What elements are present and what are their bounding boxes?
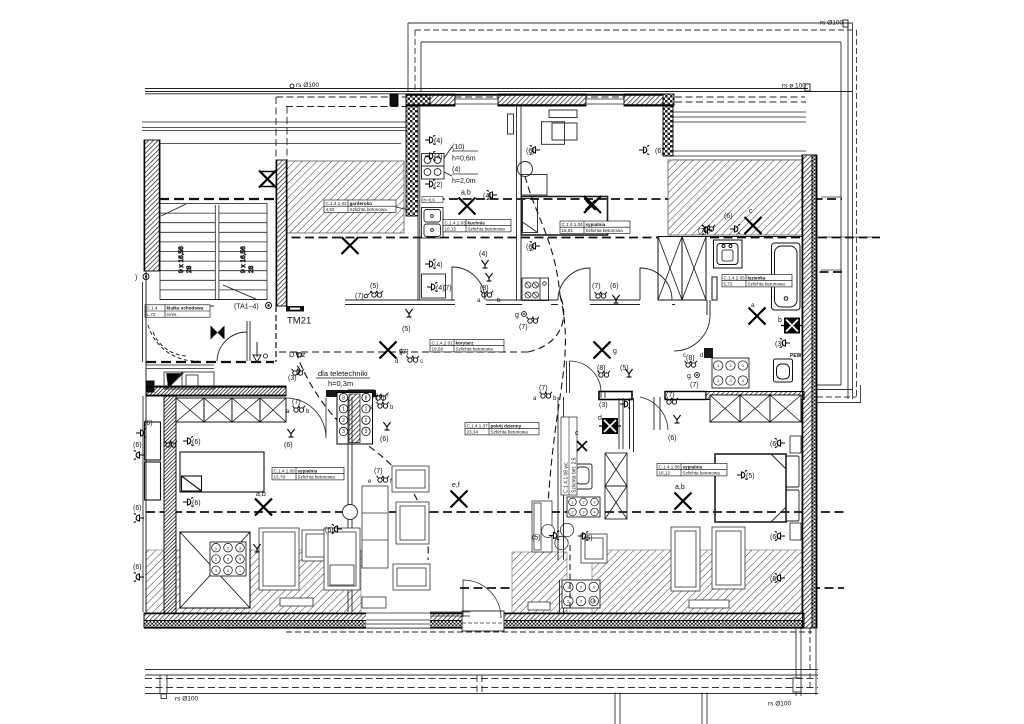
svg-text:Szlichta betonowa: Szlichta betonowa	[586, 228, 624, 233]
svg-text:(7): (7)	[690, 382, 699, 389]
svg-text:klatka schodowa: klatka schodowa	[167, 306, 204, 311]
svg-text:h=0,6m: h=0,6m	[452, 156, 476, 163]
svg-text:(6): (6)	[770, 534, 779, 541]
svg-text:(8): (8)	[686, 355, 695, 362]
svg-text:kuchnia: kuchnia	[468, 220, 486, 225]
svg-text:a,b: a,b	[675, 484, 685, 491]
svg-text:10,15: 10,15	[445, 227, 457, 232]
svg-text:8: 8	[342, 395, 345, 401]
svg-text:(7): (7)	[592, 283, 601, 290]
svg-text:28: 28	[248, 265, 255, 273]
svg-text:9 x 16,56: 9 x 16,56	[178, 246, 185, 273]
svg-text:C.1.4.1.08 wc: C.1.4.1.08 wc	[564, 462, 570, 493]
svg-text:16,12: 16,12	[659, 471, 671, 476]
svg-text:): )	[135, 275, 137, 282]
svg-text:Szlichta bet. 2,5: Szlichta bet. 2,5	[572, 457, 578, 493]
svg-text:3: 3	[365, 429, 368, 435]
svg-text:3: 3	[342, 429, 345, 435]
svg-text:rs Ø100: rs Ø100	[175, 696, 199, 703]
svg-text:g: g	[687, 373, 691, 380]
svg-text:sypialnia: sypialnia	[683, 464, 703, 469]
svg-text:c: c	[683, 353, 686, 359]
svg-text:g: g	[613, 348, 617, 355]
svg-text:Gres: Gres	[167, 312, 178, 317]
svg-text:(5): (5)	[532, 535, 541, 542]
svg-text:a,b: a,b	[461, 190, 471, 197]
svg-text:rs ø 100: rs ø 100	[782, 83, 806, 90]
svg-text:(5): (5)	[746, 473, 755, 480]
svg-text:b: b	[778, 317, 782, 324]
svg-text:(4): (4)	[483, 193, 492, 200]
svg-text:pokój dzienny: pokój dzienny	[491, 423, 522, 428]
svg-text:(TA1–4): (TA1–4)	[234, 304, 259, 311]
svg-text:4,53: 4,53	[326, 207, 335, 212]
svg-text:(7): (7)	[443, 285, 452, 292]
svg-text:(6): (6)	[380, 436, 389, 443]
svg-text:d: d	[598, 415, 602, 422]
svg-text:(4): (4)	[434, 138, 443, 145]
svg-text:Szlichta betonowa: Szlichta betonowa	[456, 347, 494, 352]
svg-text:(4): (4)	[479, 251, 488, 258]
svg-text:garderoba: garderoba	[350, 201, 373, 206]
svg-text:C.1.4: C.1.4	[147, 306, 158, 311]
svg-text:(8): (8)	[597, 365, 606, 372]
svg-text:8: 8	[365, 395, 368, 401]
svg-text:(3): (3)	[288, 375, 297, 382]
svg-text:(4): (4)	[434, 262, 443, 269]
svg-text:sypialnia: sypialnia	[586, 222, 606, 227]
svg-text:Szlichta betonowa: Szlichta betonowa	[298, 475, 336, 480]
svg-text:g: g	[515, 312, 519, 319]
svg-text:(8): (8)	[480, 285, 489, 292]
svg-text:rs Ø100: rs Ø100	[820, 20, 844, 27]
svg-text:(6): (6)	[133, 442, 142, 449]
svg-text:1: 1	[342, 407, 345, 413]
svg-text:korytarz: korytarz	[456, 340, 475, 345]
svg-text:(7): (7)	[539, 385, 548, 392]
svg-text:D Dz: D Dz	[289, 350, 306, 359]
svg-text:9 x 16,56: 9 x 16,56	[240, 246, 247, 273]
svg-text:TM21: TM21	[287, 316, 311, 327]
svg-text:(4): (4)	[452, 167, 461, 174]
svg-text:(5): (5)	[402, 326, 411, 333]
svg-text:d: d	[700, 353, 703, 359]
svg-text:C.1.4.1.02: C.1.4.1.02	[326, 201, 348, 206]
svg-text:23,34: 23,34	[467, 430, 479, 435]
svg-text:13,79: 13,79	[274, 475, 286, 480]
svg-text:Szlichta betonowa: Szlichta betonowa	[748, 282, 786, 287]
svg-text:(6): (6)	[610, 283, 619, 290]
svg-text:rs Ø100: rs Ø100	[768, 701, 792, 708]
svg-text:Szlichta betonowa: Szlichta betonowa	[491, 430, 529, 435]
svg-text:(7): (7)	[400, 349, 409, 356]
svg-text:Szlichta betonowa: Szlichta betonowa	[350, 207, 388, 212]
svg-text:(6): (6)	[144, 420, 153, 427]
svg-text:(6): (6)	[655, 148, 664, 155]
svg-text:dla teletechniki: dla teletechniki	[318, 369, 368, 378]
svg-text:Szlichta betonowa: Szlichta betonowa	[683, 471, 721, 476]
svg-text:C.1.4.1.07: C.1.4.1.07	[467, 423, 489, 428]
svg-text:C.1.4.1.06: C.1.4.1.06	[659, 464, 681, 469]
svg-text:h=0,3m: h=0,3m	[328, 379, 353, 388]
svg-text:5,72: 5,72	[724, 282, 733, 287]
svg-text:(6): (6)	[770, 576, 779, 583]
svg-text:h=2,0m: h=2,0m	[452, 178, 476, 185]
svg-text:(6): (6)	[284, 442, 293, 449]
svg-text:rs Ø100: rs Ø100	[296, 82, 320, 89]
svg-text:L.72: L.72	[147, 312, 156, 317]
svg-text:e,f: e,f	[452, 482, 460, 489]
svg-text:d: d	[395, 359, 398, 365]
svg-text:PEW: PEW	[790, 353, 802, 359]
svg-text:(3): (3)	[599, 402, 608, 409]
svg-text:(10): (10)	[452, 144, 464, 151]
svg-text:(7): (7)	[519, 324, 528, 331]
svg-text:C.1.4.2.05: C.1.4.2.05	[724, 275, 746, 280]
svg-text:28: 28	[186, 265, 193, 273]
svg-text:c: c	[749, 208, 753, 215]
svg-text:2: 2	[342, 418, 345, 424]
svg-text:(4): (4)	[434, 154, 443, 161]
svg-text:(5): (5)	[370, 283, 379, 290]
svg-text:1: 1	[365, 407, 368, 413]
svg-text:(6): (6)	[192, 439, 201, 446]
svg-text:h=0,6: h=0,6	[424, 198, 436, 203]
svg-text:(7): (7)	[292, 399, 301, 406]
svg-text:a: a	[751, 302, 755, 309]
svg-text:(6): (6)	[584, 535, 593, 542]
svg-text:(6): (6)	[133, 505, 142, 512]
svg-text:C.1.4.1.04: C.1.4.1.04	[562, 222, 584, 227]
svg-text:c: c	[420, 359, 423, 365]
svg-text:(6): (6)	[192, 500, 201, 507]
svg-text:sypialnia: sypialnia	[298, 468, 318, 473]
svg-text:c: c	[575, 430, 579, 437]
svg-text:Szlichta betonowa: Szlichta betonowa	[468, 227, 506, 232]
svg-text:(7): (7)	[355, 293, 364, 300]
svg-text:(7): (7)	[666, 392, 675, 399]
svg-text:(2): (2)	[434, 182, 443, 189]
svg-text:(6): (6)	[526, 148, 535, 155]
svg-text:(6): (6)	[668, 435, 677, 442]
svg-text:(3): (3)	[775, 341, 784, 348]
svg-text:(6): (6)	[770, 441, 779, 448]
svg-text:(6): (6)	[724, 213, 733, 220]
svg-text:19,56: 19,56	[432, 347, 444, 352]
svg-text:2: 2	[365, 418, 368, 424]
svg-text:C.1.4.2.01: C.1.4.2.01	[432, 340, 454, 345]
svg-text:C.1.4.1.03: C.1.4.1.03	[445, 220, 467, 225]
svg-text:(6): (6)	[133, 564, 142, 571]
svg-text:a,b: a,b	[256, 491, 266, 498]
svg-text:łazienka: łazienka	[748, 275, 766, 280]
svg-text:(7): (7)	[374, 468, 383, 475]
svg-text:16,91: 16,91	[562, 228, 574, 233]
svg-text:(6): (6)	[325, 527, 334, 534]
svg-text:C.1.4.1.09: C.1.4.1.09	[274, 468, 296, 473]
svg-text:(6): (6)	[526, 244, 535, 251]
